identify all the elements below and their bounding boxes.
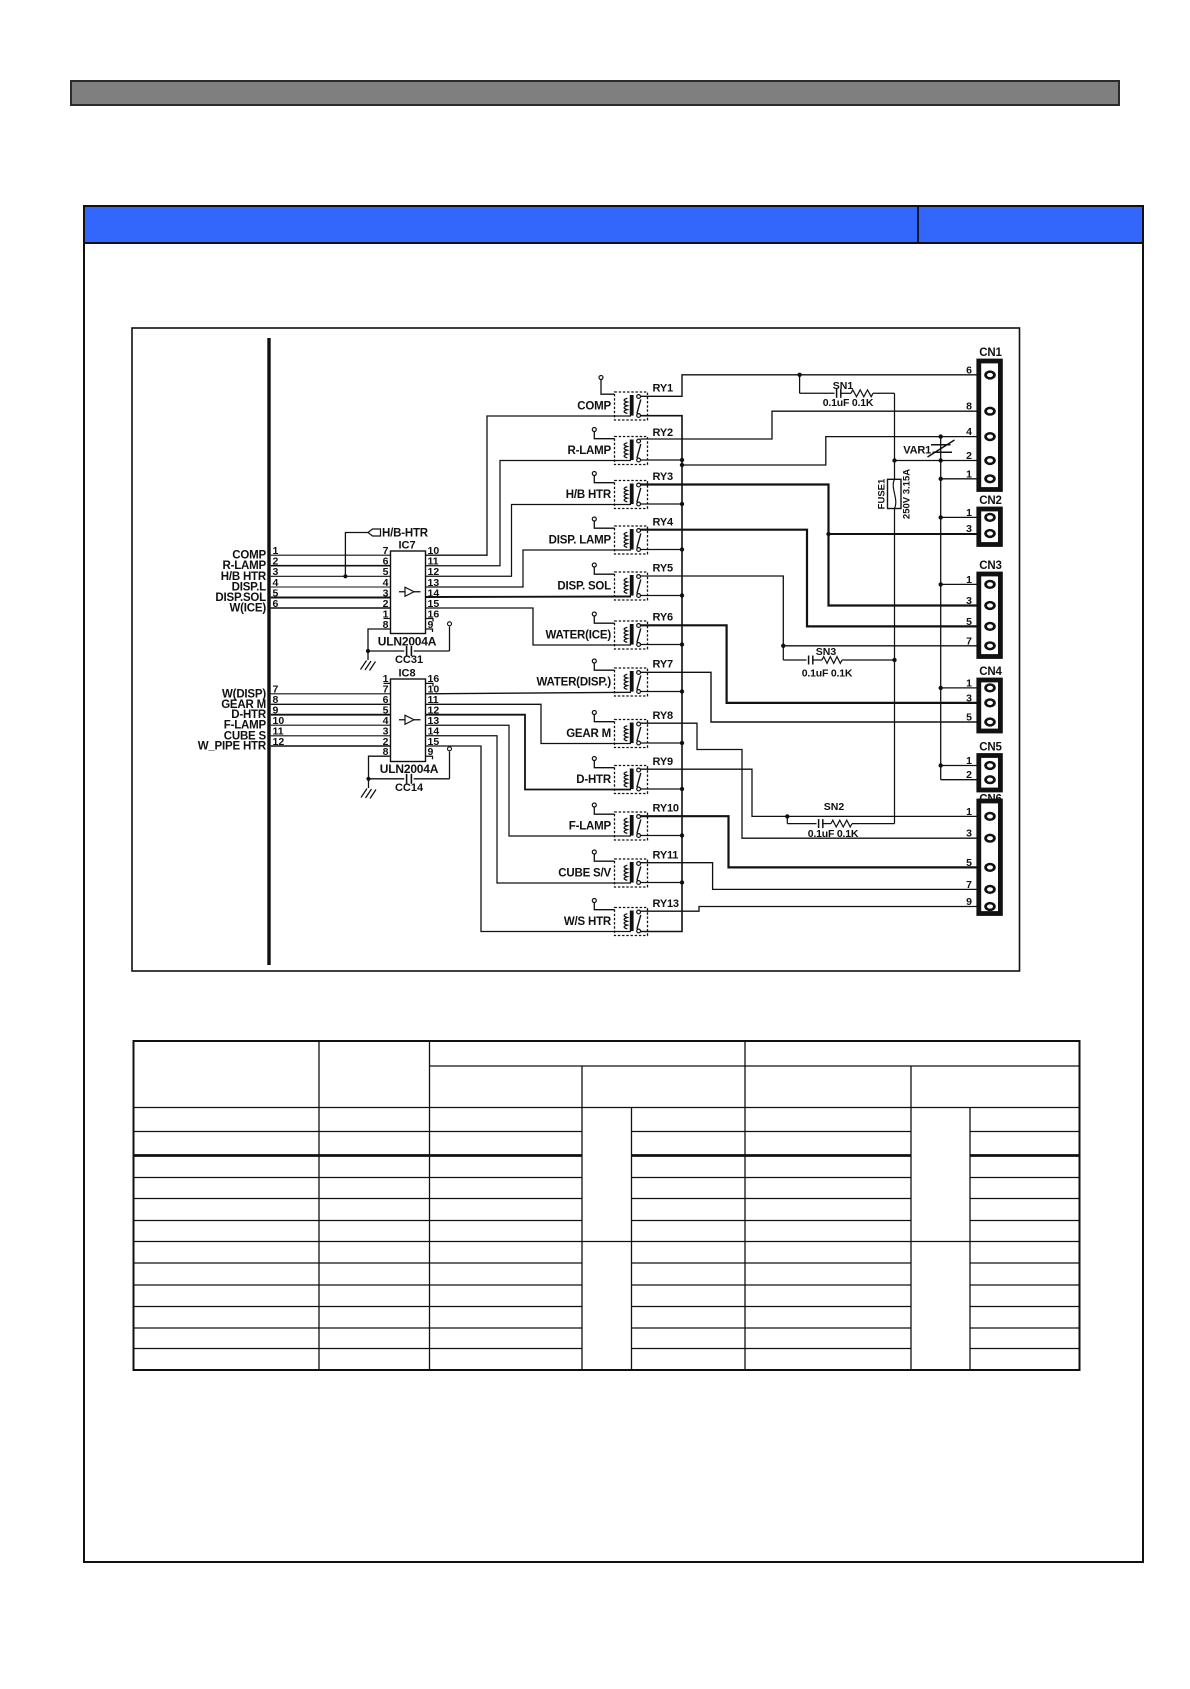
relay RY7 — [537, 659, 673, 697]
wire rail to CN2 pin1 — [939, 515, 977, 519]
wire RY4 contact to CN3 pin5 — [641, 530, 977, 627]
svg-text:D-HTR: D-HTR — [576, 774, 612, 786]
svg-text:1: 1 — [966, 574, 972, 586]
wire RY11 contact to CN6 pin7 — [641, 863, 977, 890]
relay RY6 — [545, 612, 672, 650]
svg-text:3: 3 — [966, 692, 972, 704]
svg-text:3: 3 — [966, 828, 972, 840]
svg-text:H/B HTR: H/B HTR — [566, 489, 612, 501]
svg-text:IC7: IC7 — [399, 540, 416, 552]
svg-text:CC14: CC14 — [395, 782, 424, 794]
wire RY9 contact to CN6 pin1 — [641, 769, 977, 816]
svg-text:CUBE S/V: CUBE S/V — [558, 867, 611, 879]
wire input GEAR M to IC8 — [221, 694, 390, 711]
wire RY7 contact to CN4 pin5 — [641, 672, 977, 722]
connector CN3 — [966, 560, 1002, 657]
svg-text:8: 8 — [966, 401, 972, 413]
svg-text:W_PIPE HTR: W_PIPE HTR — [198, 741, 267, 753]
svg-text:WATER(DISP.): WATER(DISP.) — [537, 676, 612, 688]
IC7 pin 9 common stub — [426, 622, 452, 651]
wire input R-LAMP to IC7 — [222, 556, 390, 573]
svg-text:1: 1 — [966, 468, 972, 480]
svg-text:GEAR M: GEAR M — [566, 728, 611, 740]
schematic frame — [132, 328, 1020, 971]
wire RY13 contact to CN6 pin9 — [641, 907, 977, 912]
net tag H/B-HTR — [343, 527, 428, 578]
wire IC7 pin14 to RY5 coil — [426, 596, 632, 599]
svg-text:CC31: CC31 — [395, 654, 423, 666]
wire input COMP to IC7 — [232, 545, 390, 562]
IC7 pin 16 stub — [426, 619, 434, 622]
relay RY11 — [558, 850, 678, 888]
wire input CUBE S to IC8 — [224, 726, 391, 743]
svg-text:1: 1 — [966, 677, 972, 689]
svg-text:CN6: CN6 — [979, 794, 1001, 806]
svg-text:6: 6 — [273, 598, 279, 610]
wire IC8 pin13 to RY10 coil — [426, 725, 632, 836]
capacitor CC14 — [369, 774, 450, 794]
snubber SN1 (0.1uF 0.1K) — [797, 373, 894, 409]
wire IC8 pin12 to RY9 coil — [426, 715, 632, 790]
op-amp driver IC7 body — [383, 540, 440, 634]
svg-text:FUSE1: FUSE1 — [877, 478, 888, 509]
svg-text:SN2: SN2 — [824, 801, 845, 813]
svg-text:3: 3 — [966, 595, 972, 607]
wire input W(ICE) to IC7 — [230, 598, 391, 615]
svg-text:SN3: SN3 — [816, 646, 837, 658]
wire input DISP.SOL to IC7 — [215, 587, 390, 604]
wire IC7 pin10 to RY1 coil — [426, 416, 632, 555]
svg-text:VAR1: VAR1 — [903, 445, 931, 457]
table grid — [134, 1041, 1080, 1370]
svg-text:9: 9 — [966, 896, 972, 908]
op-amp driver IC8 body — [383, 668, 440, 762]
svg-text:RY10: RY10 — [653, 803, 679, 815]
svg-text:DISP. LAMP: DISP. LAMP — [549, 534, 612, 546]
varistor VAR1 — [903, 434, 954, 779]
svg-text:RY6: RY6 — [653, 612, 673, 624]
capacitor CC31 — [368, 646, 450, 666]
svg-text:2: 2 — [966, 450, 972, 462]
connector CN2 — [966, 495, 1002, 545]
svg-text:WATER(ICE): WATER(ICE) — [545, 629, 611, 641]
wire input W(DISP) to IC8 — [222, 684, 390, 701]
svg-text:RY13: RY13 — [653, 898, 679, 910]
outer frame box — [84, 206, 1143, 1562]
ground (IC7) — [361, 649, 376, 671]
wire IC7 pin11 to RY2 coil — [426, 461, 632, 566]
svg-text:CN3: CN3 — [979, 560, 1001, 572]
svg-text:F-LAMP: F-LAMP — [569, 820, 612, 832]
svg-text:5: 5 — [966, 857, 972, 869]
wire rail to CN1 pin8 — [641, 411, 977, 439]
svg-text:5: 5 — [966, 616, 972, 628]
svg-text:1: 1 — [966, 806, 972, 818]
svg-text:4: 4 — [966, 426, 972, 438]
svg-text:RY8: RY8 — [653, 710, 673, 722]
ground (IC8) — [361, 777, 376, 799]
connector CN4 — [966, 666, 1002, 731]
svg-text:RY4: RY4 — [653, 517, 674, 529]
wire IC7 pin12 to RY3 coil — [426, 505, 632, 577]
wire snubber/fuse vertical — [894, 393, 896, 823]
IC8 pin 16 stub — [426, 683, 434, 686]
fuse FUSE1 250V 3.15A — [877, 469, 913, 519]
relay common rail — [641, 416, 685, 932]
relay RY10 — [569, 803, 679, 841]
wire input DISP.L to IC7 — [232, 577, 391, 594]
wire rail to CN4 pin1 — [939, 686, 977, 690]
wire rail to CN1 pin4 — [680, 437, 977, 468]
connector CN1 — [966, 347, 1002, 490]
svg-text:0.1uF 0.1K: 0.1uF 0.1K — [802, 668, 853, 680]
svg-text:CN1: CN1 — [979, 347, 1002, 359]
svg-text:RY3: RY3 — [653, 471, 673, 483]
connector CN6 — [966, 794, 1002, 914]
svg-text:7: 7 — [966, 635, 972, 647]
wire RY5 contact to CN3 pin7 — [641, 576, 977, 648]
svg-text:RY7: RY7 — [653, 659, 673, 671]
svg-text:CN4: CN4 — [979, 666, 1002, 678]
wire RY1 contact to CN1 pin6 — [641, 375, 977, 397]
svg-text:RY11: RY11 — [653, 850, 679, 862]
wire RY6 contact to CN4 pin3 — [641, 625, 977, 703]
wire IC8 pin10 to RY7 coil — [426, 692, 632, 694]
wire IC8 pin11 to RY8 coil — [426, 704, 632, 743]
IC8 pin 9 common stub — [426, 747, 452, 779]
relay RY5 — [557, 563, 673, 601]
wire rail to CN1 pin1 — [939, 477, 977, 481]
svg-text:ULN2004A: ULN2004A — [380, 762, 439, 776]
svg-text:SN1: SN1 — [833, 380, 854, 392]
svg-text:12: 12 — [273, 736, 285, 748]
relay RY1 — [577, 376, 673, 421]
wire input F-LAMP to IC8 — [224, 715, 391, 732]
svg-text:5: 5 — [966, 712, 972, 724]
blue header bar — [84, 206, 1143, 243]
svg-text:CN2: CN2 — [979, 495, 1001, 507]
svg-text:3: 3 — [966, 523, 972, 535]
snubber SN2 (0.1uF 0.1K) — [785, 801, 894, 840]
IC7 pin 1 stub — [384, 618, 391, 620]
relay RY4 — [549, 517, 674, 555]
snubber SN3 (0.1uF 0.1K) — [783, 646, 896, 680]
svg-text:RY2: RY2 — [653, 427, 673, 439]
gray title bar — [71, 81, 1119, 105]
blue header divider — [917, 206, 919, 243]
wire IC7 pin15 to RY6 coil — [426, 608, 632, 645]
wire IC7 pin13 to RY4 coil — [426, 550, 632, 587]
wire input D-HTR to IC8 — [231, 705, 390, 722]
relay RY3 — [566, 471, 673, 509]
svg-text:ULN2004A: ULN2004A — [378, 635, 437, 649]
svg-text:W(ICE): W(ICE) — [230, 603, 267, 615]
wire RY3 contact to CN2 pin3 / CN3 pin3 — [641, 485, 977, 606]
relay RY2 — [567, 427, 672, 465]
svg-text:H/B-HTR: H/B-HTR — [382, 527, 429, 539]
svg-text:IC8: IC8 — [399, 668, 416, 680]
wire input H/B HTR to IC7 — [221, 566, 391, 583]
wire RY8 contact to CN6 pin3 — [641, 723, 977, 838]
wire IC8 pin14 to RY11 coil — [426, 736, 632, 883]
svg-text:CN5: CN5 — [979, 742, 1002, 754]
svg-text:0.1uF 0.1K: 0.1uF 0.1K — [823, 397, 874, 409]
IC7 pin 8 to ground wire — [368, 629, 391, 651]
svg-text:6: 6 — [966, 365, 972, 377]
wire RY10 contact to CN6 pin5 — [641, 816, 977, 867]
svg-text:W/S HTR: W/S HTR — [564, 916, 612, 928]
wire input W_PIPE HTR to IC8 — [198, 736, 391, 753]
IC8 pin 8 to ground wire — [369, 756, 391, 779]
relay RY13 — [564, 898, 679, 936]
svg-text:R-LAMP: R-LAMP — [567, 445, 611, 457]
relay RY9 — [576, 756, 673, 794]
wire rail to CN5 pin2 — [941, 779, 977, 781]
wire fuse top to CN1 pin2 — [895, 460, 977, 462]
svg-text:7: 7 — [966, 879, 972, 891]
svg-text:RY5: RY5 — [653, 563, 673, 575]
svg-text:1: 1 — [966, 507, 972, 519]
relay RY8 — [566, 710, 673, 748]
svg-text:RY1: RY1 — [653, 383, 673, 395]
wire IC8 pin15 to RY13 coil — [426, 746, 632, 932]
svg-text:DISP. SOL: DISP. SOL — [557, 580, 611, 592]
svg-text:250V 3.15A: 250V 3.15A — [902, 469, 913, 519]
bus line (input bus) — [267, 338, 270, 965]
svg-text:RY9: RY9 — [653, 756, 673, 768]
wire rail to CN5 pin1 — [939, 763, 977, 767]
svg-text:COMP: COMP — [577, 400, 611, 412]
svg-text:1: 1 — [966, 755, 972, 767]
IC8 pin 1 stub — [384, 682, 391, 684]
wire rail to CN3 pin1 — [939, 582, 977, 586]
svg-text:0.1uF 0.1K: 0.1uF 0.1K — [808, 828, 859, 840]
connector CN5 — [966, 742, 1002, 791]
svg-text:2: 2 — [966, 769, 972, 781]
